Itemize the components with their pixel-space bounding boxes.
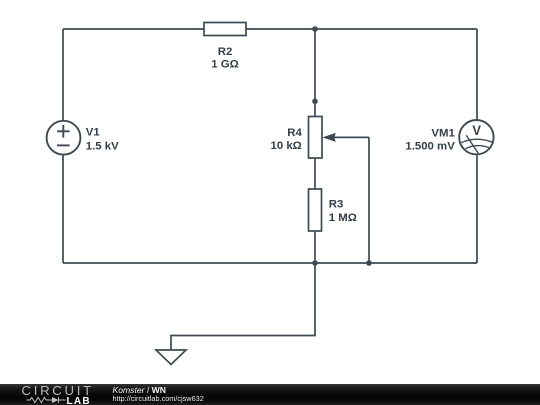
node wiper bottom junction — [366, 260, 372, 266]
svg-text:V1: V1 — [86, 126, 101, 138]
node above R4 — [312, 99, 318, 105]
svg-text:1.5 kV: 1.5 kV — [86, 140, 119, 152]
svg-text:LAB: LAB — [67, 396, 91, 405]
wire right vertical upper — [476, 29, 478, 120]
wire R3 to bottom bus — [314, 231, 316, 263]
potentiometer R4 — [309, 117, 370, 159]
wire right vertical lower — [476, 156, 478, 264]
wire left vertical upper — [62, 29, 64, 120]
voltmeter VM1 — [459, 120, 493, 154]
svg-text:VM1: VM1 — [431, 127, 455, 139]
wire bottom node to ground — [171, 263, 315, 350]
node top bus junction — [312, 26, 318, 32]
svg-text:1.500 mV: 1.500 mV — [405, 140, 455, 152]
wire left vertical lower — [62, 156, 64, 264]
wire wiper drop — [368, 137, 370, 263]
svg-text:R2: R2 — [218, 46, 233, 58]
wire mid vertical to R4 — [314, 29, 316, 117]
resistor R2 — [204, 23, 246, 36]
wire top bus — [63, 28, 477, 30]
resistor R3 — [309, 189, 322, 231]
voltage source V1 — [47, 121, 81, 155]
ground — [156, 350, 186, 365]
attribution text — [113, 386, 167, 395]
svg-text:1 MΩ: 1 MΩ — [329, 212, 357, 224]
wire R4 to R3 — [314, 158, 316, 189]
svg-text:10 kΩ: 10 kΩ — [270, 140, 301, 152]
node bottom bus junction — [312, 260, 318, 266]
footer bar — [0, 384, 540, 405]
CircuitLab logo — [0, 384, 100, 405]
svg-text:V: V — [472, 122, 481, 138]
wire bottom bus — [63, 262, 477, 264]
svg-text:R3: R3 — [329, 199, 344, 211]
svg-text:1 GΩ: 1 GΩ — [211, 59, 239, 71]
svg-text:R4: R4 — [287, 127, 302, 139]
